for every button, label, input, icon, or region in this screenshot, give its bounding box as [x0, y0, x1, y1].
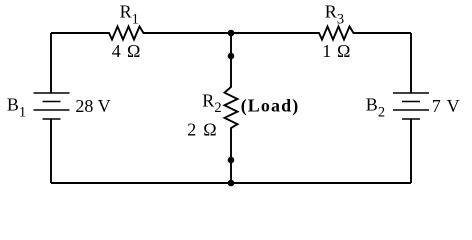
svg-text:28 V: 28 V	[75, 96, 110, 116]
svg-text:B2: B2	[366, 94, 385, 120]
svg-text:4 Ω: 4 Ω	[112, 41, 142, 61]
svg-text:2 Ω: 2 Ω	[187, 119, 218, 139]
svg-text:7 V: 7 V	[432, 96, 461, 116]
svg-text:1 Ω: 1 Ω	[322, 41, 351, 61]
svg-text:R2: R2	[202, 91, 221, 117]
svg-text:R1: R1	[120, 2, 139, 28]
svg-text:B1: B1	[7, 94, 26, 120]
svg-text:(Load): (Load)	[241, 96, 300, 117]
svg-text:R3: R3	[325, 2, 344, 28]
